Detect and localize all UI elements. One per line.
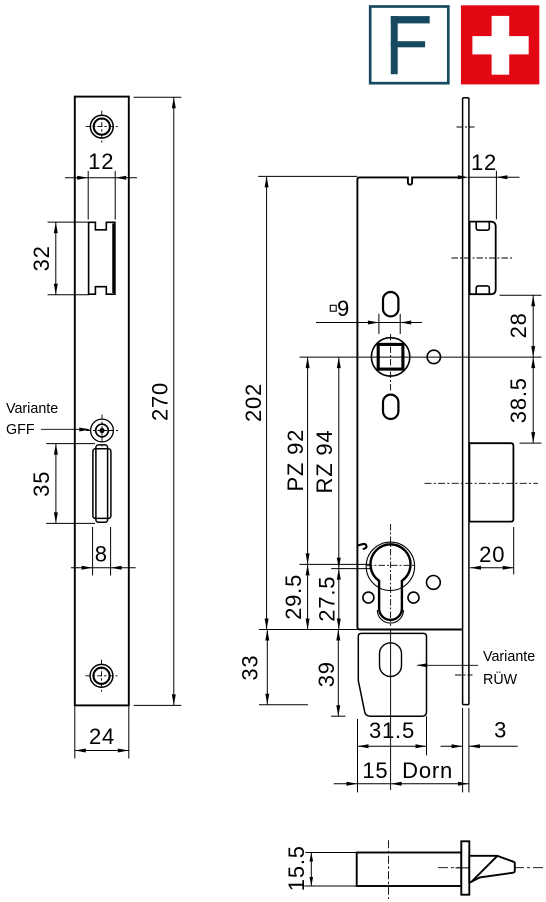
follower square bbox=[378, 344, 403, 369]
svg-text:15: 15 bbox=[362, 758, 388, 783]
screw axis centerline bbox=[457, 126, 475, 128]
lower box bbox=[358, 633, 426, 716]
cylinder ring thin bbox=[366, 542, 414, 590]
dim 20 line bbox=[470, 567, 514, 569]
svg-text:Variante: Variante bbox=[6, 401, 58, 417]
dim 35 line bbox=[55, 444, 57, 524]
dim 39 line bbox=[337, 630, 339, 717]
screw hole bottom bbox=[90, 664, 113, 687]
deadbolt centerline bbox=[425, 482, 539, 484]
latch bolt top notch bbox=[476, 222, 489, 230]
svg-text:15.5: 15.5 bbox=[284, 845, 309, 891]
svg-text:GFF: GFF bbox=[6, 422, 35, 438]
dim 9 symbol bbox=[330, 305, 336, 311]
oval hole upper bbox=[383, 292, 398, 316]
dim 270 line bbox=[173, 97, 175, 705]
deadbolt box bbox=[469, 443, 513, 521]
latch cutout bbox=[89, 222, 115, 294]
latch face thick edge bbox=[112, 224, 115, 294]
logo F box bbox=[370, 7, 448, 84]
PZ axis line bbox=[300, 563, 371, 565]
faceplate outline bbox=[75, 97, 129, 706]
svg-text:8: 8 bbox=[95, 541, 108, 566]
svg-text:3: 3 bbox=[494, 717, 507, 742]
bottom view plate axis tick bbox=[456, 867, 475, 869]
lock body outline bbox=[357, 177, 462, 629]
dim 24 line bbox=[75, 750, 129, 752]
spring detail bbox=[357, 544, 366, 549]
dim 12 right ext bbox=[495, 171, 497, 220]
svg-text:28: 28 bbox=[506, 312, 531, 338]
bottom view plate bbox=[461, 841, 469, 894]
lower box right ext bbox=[426, 716, 428, 755]
svg-text:33: 33 bbox=[238, 655, 263, 681]
svg-text:39: 39 bbox=[314, 661, 339, 687]
dim 202 line bbox=[266, 176, 268, 629]
dim 8 ext lines bbox=[92, 527, 94, 576]
svg-text:35: 35 bbox=[29, 471, 54, 497]
dim 32 line bbox=[55, 222, 57, 295]
bottom view latch wedge bbox=[469, 856, 515, 882]
keyhole profile bbox=[370, 544, 410, 620]
dim 24 ext lines bbox=[74, 707, 76, 759]
cylinder centerline horizontal bbox=[366, 564, 416, 566]
dim 38.5 ext line bbox=[520, 442, 542, 444]
cylinder centerline vertical bbox=[390, 524, 392, 626]
leader arrow RUW bbox=[418, 664, 479, 666]
svg-text:24: 24 bbox=[89, 724, 115, 749]
latch bolt box bbox=[470, 222, 496, 295]
dim 29.5 line bbox=[307, 564, 309, 629]
dim 3 line bbox=[441, 745, 463, 747]
cylinder ring bottom arc bbox=[377, 610, 403, 623]
dim 32 ext lines bbox=[48, 221, 89, 223]
vertical centerline lower bbox=[390, 630, 392, 791]
screw circle middle bbox=[408, 592, 419, 603]
bottom view centerline h bbox=[438, 867, 545, 869]
screw hole GFF bbox=[91, 419, 114, 442]
dim 35 ext lines bbox=[46, 443, 95, 445]
follower circle bbox=[371, 338, 409, 376]
svg-text:RZ 94: RZ 94 bbox=[312, 430, 337, 494]
svg-text:202: 202 bbox=[241, 383, 266, 422]
screw hole top bbox=[90, 115, 113, 138]
dim 27.5 line bbox=[338, 569, 340, 630]
dim 12 left line bbox=[65, 177, 137, 179]
dim 31.5 line bbox=[358, 745, 427, 747]
svg-text:PZ 92: PZ 92 bbox=[283, 429, 308, 492]
circle right of follower bbox=[427, 350, 440, 363]
dim 8 line bbox=[71, 567, 136, 569]
screw circle right bbox=[427, 576, 441, 590]
dim 28 line bbox=[532, 295, 534, 357]
latch centerline bbox=[452, 257, 514, 259]
dim 15.5 ext lines bbox=[305, 852, 358, 854]
bottom view centerline v bbox=[388, 840, 390, 899]
dim 39 ext line bbox=[331, 715, 346, 717]
dim 31.5 left ext bbox=[357, 719, 359, 792]
bottom view body bbox=[357, 853, 462, 887]
body bottom ext line bbox=[259, 629, 357, 631]
dim 15 Dorn line bbox=[334, 783, 358, 785]
dim 202 ext line bbox=[258, 175, 357, 177]
svg-text:27.5: 27.5 bbox=[315, 576, 340, 622]
svg-text:20: 20 bbox=[479, 542, 505, 567]
latch bolt bottom notch bbox=[476, 286, 489, 294]
logo F letter bbox=[391, 16, 430, 74]
leader arrow GFF bbox=[41, 428, 89, 430]
forend plate edge view bbox=[462, 98, 464, 705]
dim 28 ext line bbox=[500, 294, 542, 296]
dim 9 line bbox=[316, 322, 422, 324]
dim 3 ext lines bbox=[462, 708, 464, 792]
plate centerline RUW bbox=[455, 674, 473, 676]
oval hole lower bbox=[383, 395, 398, 419]
dim 270 ext lines bbox=[134, 96, 182, 98]
cylinder slot wide bbox=[93, 449, 111, 519]
cylinder slot narrow bbox=[96, 445, 108, 522]
dim 38.5 line bbox=[532, 357, 534, 443]
svg-text:9: 9 bbox=[337, 296, 350, 321]
screw circle left bbox=[363, 592, 374, 603]
dim PZ92 line bbox=[307, 357, 309, 564]
svg-text:12: 12 bbox=[471, 150, 497, 175]
svg-text:31.5: 31.5 bbox=[369, 718, 415, 743]
follower axis line bbox=[300, 356, 542, 358]
svg-text:38.5: 38.5 bbox=[506, 377, 531, 423]
dim 20 ext line bbox=[513, 527, 515, 575]
svg-text:32: 32 bbox=[29, 245, 54, 271]
dim 12 left ext lines bbox=[87, 171, 89, 220]
dim 12 right line bbox=[469, 176, 520, 178]
dim 33 ext line bbox=[259, 704, 308, 706]
dim RZ94 line bbox=[338, 357, 340, 568]
dim 33 line bbox=[266, 630, 268, 705]
dim 9 ext lines bbox=[378, 314, 380, 334]
logo Swiss flag bbox=[461, 5, 539, 84]
svg-text:Variante: Variante bbox=[483, 649, 535, 665]
dim 15.5 line bbox=[310, 853, 312, 887]
svg-text:29.5: 29.5 bbox=[281, 574, 306, 620]
follower centerline vertical bbox=[390, 334, 392, 392]
svg-text:RÜW: RÜW bbox=[483, 670, 518, 688]
RZ axis line bbox=[331, 568, 371, 570]
svg-text:270: 270 bbox=[147, 382, 172, 421]
lower box oval bbox=[380, 643, 402, 677]
svg-text:Dorn: Dorn bbox=[402, 758, 453, 783]
svg-text:12: 12 bbox=[88, 149, 114, 174]
